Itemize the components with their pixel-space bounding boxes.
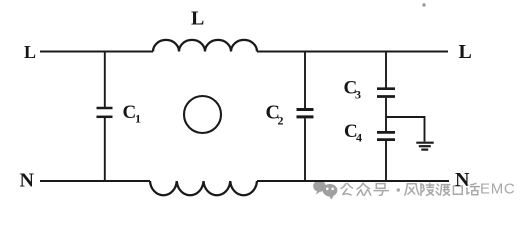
svg-text:2: 2 xyxy=(278,114,284,128)
svg-text:4: 4 xyxy=(356,131,362,145)
wire: C1 lower lead xyxy=(104,118,106,181)
wire: top rail, right segment xyxy=(257,51,448,53)
wire: C2 lower lead xyxy=(304,118,306,181)
inductor, neutral-side winding (bottom) xyxy=(150,181,257,195)
svg-text:L: L xyxy=(459,41,472,63)
capacitor C1 xyxy=(97,107,113,110)
wire: C4 lower lead xyxy=(385,141,387,181)
wire: C3 upper lead xyxy=(385,52,387,88)
svg-text:L: L xyxy=(191,8,204,30)
capacitor C2 xyxy=(297,108,314,111)
svg-text:EMC: EMC xyxy=(480,180,515,197)
svg-text:1: 1 xyxy=(135,112,141,126)
watermark middle dot xyxy=(397,188,400,191)
inductor L, line-side winding (top) xyxy=(153,40,257,52)
watermark text: 风陵渡口话 xyxy=(405,183,480,195)
ground (earth symbol) xyxy=(416,142,433,144)
wire: bottom rail, left segment xyxy=(40,180,150,182)
svg-text:N: N xyxy=(20,170,35,192)
stray ink speck xyxy=(422,3,425,6)
svg-text:N: N xyxy=(455,169,470,191)
wire: C2 upper lead xyxy=(304,52,306,109)
watermark logo (chat bubbles) xyxy=(313,180,337,199)
svg-text:3: 3 xyxy=(355,88,361,102)
wire: C3/C4 midpoint node xyxy=(385,98,387,131)
wire: top rail, left segment xyxy=(40,51,153,53)
capacitor C3 xyxy=(377,87,395,90)
watermark text: 公众号 xyxy=(341,183,388,195)
capacitor C4 xyxy=(377,131,395,134)
svg-text:L: L xyxy=(24,42,36,62)
wire: bottom rail, right segment xyxy=(257,180,449,182)
wire: ground tap from C3/C4 midpoint xyxy=(386,117,425,142)
common-mode choke core (circle) xyxy=(184,96,221,133)
wire: C1 upper lead xyxy=(104,52,106,108)
